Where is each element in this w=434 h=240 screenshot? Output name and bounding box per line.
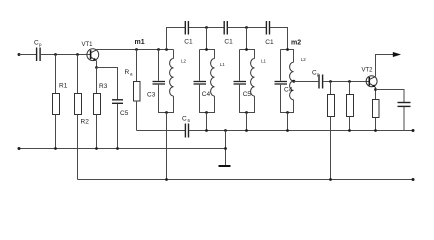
resistor R3 [94,68,101,149]
node bus3 Rr1 [329,178,332,181]
node tank1 bottom [165,111,168,114]
svg-text:R: R [125,69,130,76]
svg-text:L2: L2 [301,57,307,62]
resistor right 2 [347,82,354,131]
capacitor right [398,103,411,107]
svg-text:L1: L1 [220,62,226,67]
node tank2 bottom [205,111,208,114]
capacitor C6 [185,124,188,138]
svg-text:C5: C5 [120,110,129,117]
tank 1 : C3 L2 [153,50,174,113]
wire base VT1 [41,54,91,56]
node bus1 tank3 [245,129,248,132]
wire m1 collector line [96,49,173,51]
svg-text:C3: C3 [147,92,156,99]
svg-text:C1: C1 [224,39,233,46]
node Rr1 top [329,80,332,83]
node bus1 Re [374,129,377,132]
bus 2 common [19,148,226,150]
wire VT2 collector up [376,55,395,77]
wire C1 row segment 3 [228,27,267,29]
bus C6 line left part [137,130,186,132]
node bus3 tank1 [165,178,168,181]
node bus2 ground [224,147,227,150]
svg-text:R3: R3 [99,83,108,90]
wire input left [19,54,36,56]
node bus1 tank4 [286,129,289,132]
node bus2 C5 [116,147,119,150]
wire tank3 top stub [246,28,248,50]
svg-text:VT2: VT2 [362,68,374,74]
svg-text:L2: L2 [181,59,187,64]
svg-text:a: a [130,72,133,77]
node m1 [165,48,168,51]
wire C1 row segment 4 [270,28,288,50]
svg-text:C1: C1 [265,39,274,46]
svg-text:C4: C4 [284,87,293,94]
resistor R1 [53,55,60,149]
svg-text:L1: L1 [261,59,267,64]
wire tank1 bottom stub [166,113,168,180]
node bus1 ground [224,129,227,132]
node bus1 right end [412,129,415,132]
node bus2 R3 [95,147,98,150]
wire C5 bottom [117,104,119,149]
transistor VT2 [366,76,377,88]
node bus3 right end [412,178,415,181]
tank 3 : C5 L1 [234,50,255,113]
node bus1 Rr2 [348,129,351,132]
transistor VT1 [87,49,99,61]
node tank1 left [157,48,160,51]
node Rr2 top [348,80,351,83]
resistor emitter VT2 [373,100,380,131]
tank 2 : C4 L1 [194,50,215,113]
node tank4 top [286,48,289,51]
node tank3 top [245,48,248,51]
node tank2 top [205,48,208,51]
node emitter VT1 [95,66,98,69]
wire C1 row [167,28,186,50]
node bus1 tank2 [205,129,208,132]
svg-text:p: p [39,42,42,47]
capacitor C1 third [266,21,269,35]
wire VT2 emitter [375,87,377,100]
svg-text:R2: R2 [81,119,90,126]
svg-text:m2: m2 [291,40,301,47]
wire to C5 [97,68,118,100]
svg-text:VT1: VT1 [82,42,94,48]
svg-text:C: C [182,116,187,123]
svg-text:C4: C4 [202,91,211,98]
wire C1 row segment 2 [189,27,224,29]
svg-text:C1: C1 [184,39,193,46]
output arrow [393,52,401,57]
node bus2 R1 [54,147,57,150]
wire to right cap [376,90,405,103]
wire tank2 top stub [206,28,208,50]
resistor right 1 [328,82,335,180]
wire tank4 bottom stub [287,113,289,131]
wire tank3 bottom stub [246,113,248,131]
node R2 top [76,53,79,56]
node R1 top [54,53,57,56]
capacitor C1 second [224,21,227,35]
node tank4 tap [292,80,295,83]
capacitor Cp right [319,75,323,89]
wire tap line to VT2 [323,81,369,83]
svg-text:C5: C5 [243,91,252,98]
wire tank2 bottom stub [206,113,208,131]
wire right cap bottom [403,107,405,131]
svg-text:m1: m1 [135,39,145,46]
resistor Ra [134,50,141,131]
svg-text:6: 6 [188,118,191,123]
ground [219,131,231,167]
wire tap line to Cp right [294,81,319,83]
input terminal [18,53,21,56]
resistor R2 [75,55,82,180]
node C1 junction tank3 [245,26,248,29]
node bus2 left terminal [18,147,21,150]
capacitor Cp [37,48,41,62]
node C1 junction tank2 [205,26,208,29]
bus 3 bottom [78,179,414,181]
node Ra top [135,48,138,51]
wire VT1 emitter [96,60,98,67]
node emitter VT2 [374,88,377,91]
svg-text:R1: R1 [59,83,68,90]
bus C6 line right part [189,130,413,132]
capacitor C1 first [185,21,188,35]
node tank4 bottom [286,111,289,114]
node tank3 bottom [245,111,248,114]
capacitor C5 [112,100,123,104]
tank 4 : C4 L2 [275,50,294,113]
